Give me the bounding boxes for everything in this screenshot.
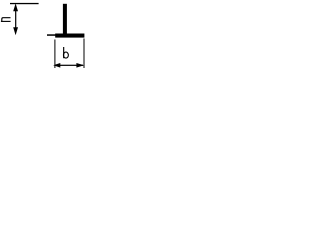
b left extension line xyxy=(54,40,55,69)
label b (drawn as strokes) xyxy=(63,47,64,58)
top reference line xyxy=(10,3,39,4)
h dimension arrow shaft xyxy=(15,8,16,30)
h arrowhead up xyxy=(13,3,18,11)
b dimension arrow shaft xyxy=(56,65,83,66)
b right extension line xyxy=(84,39,85,69)
b arrowhead left xyxy=(53,63,60,68)
T stem xyxy=(63,4,67,35)
h arrowhead down xyxy=(13,27,18,35)
b arrowhead right xyxy=(76,63,84,68)
label h (rotated glyph drawn as strokes) xyxy=(2,18,11,21)
h bottom reference line xyxy=(47,34,56,36)
T flange bar xyxy=(55,34,84,38)
